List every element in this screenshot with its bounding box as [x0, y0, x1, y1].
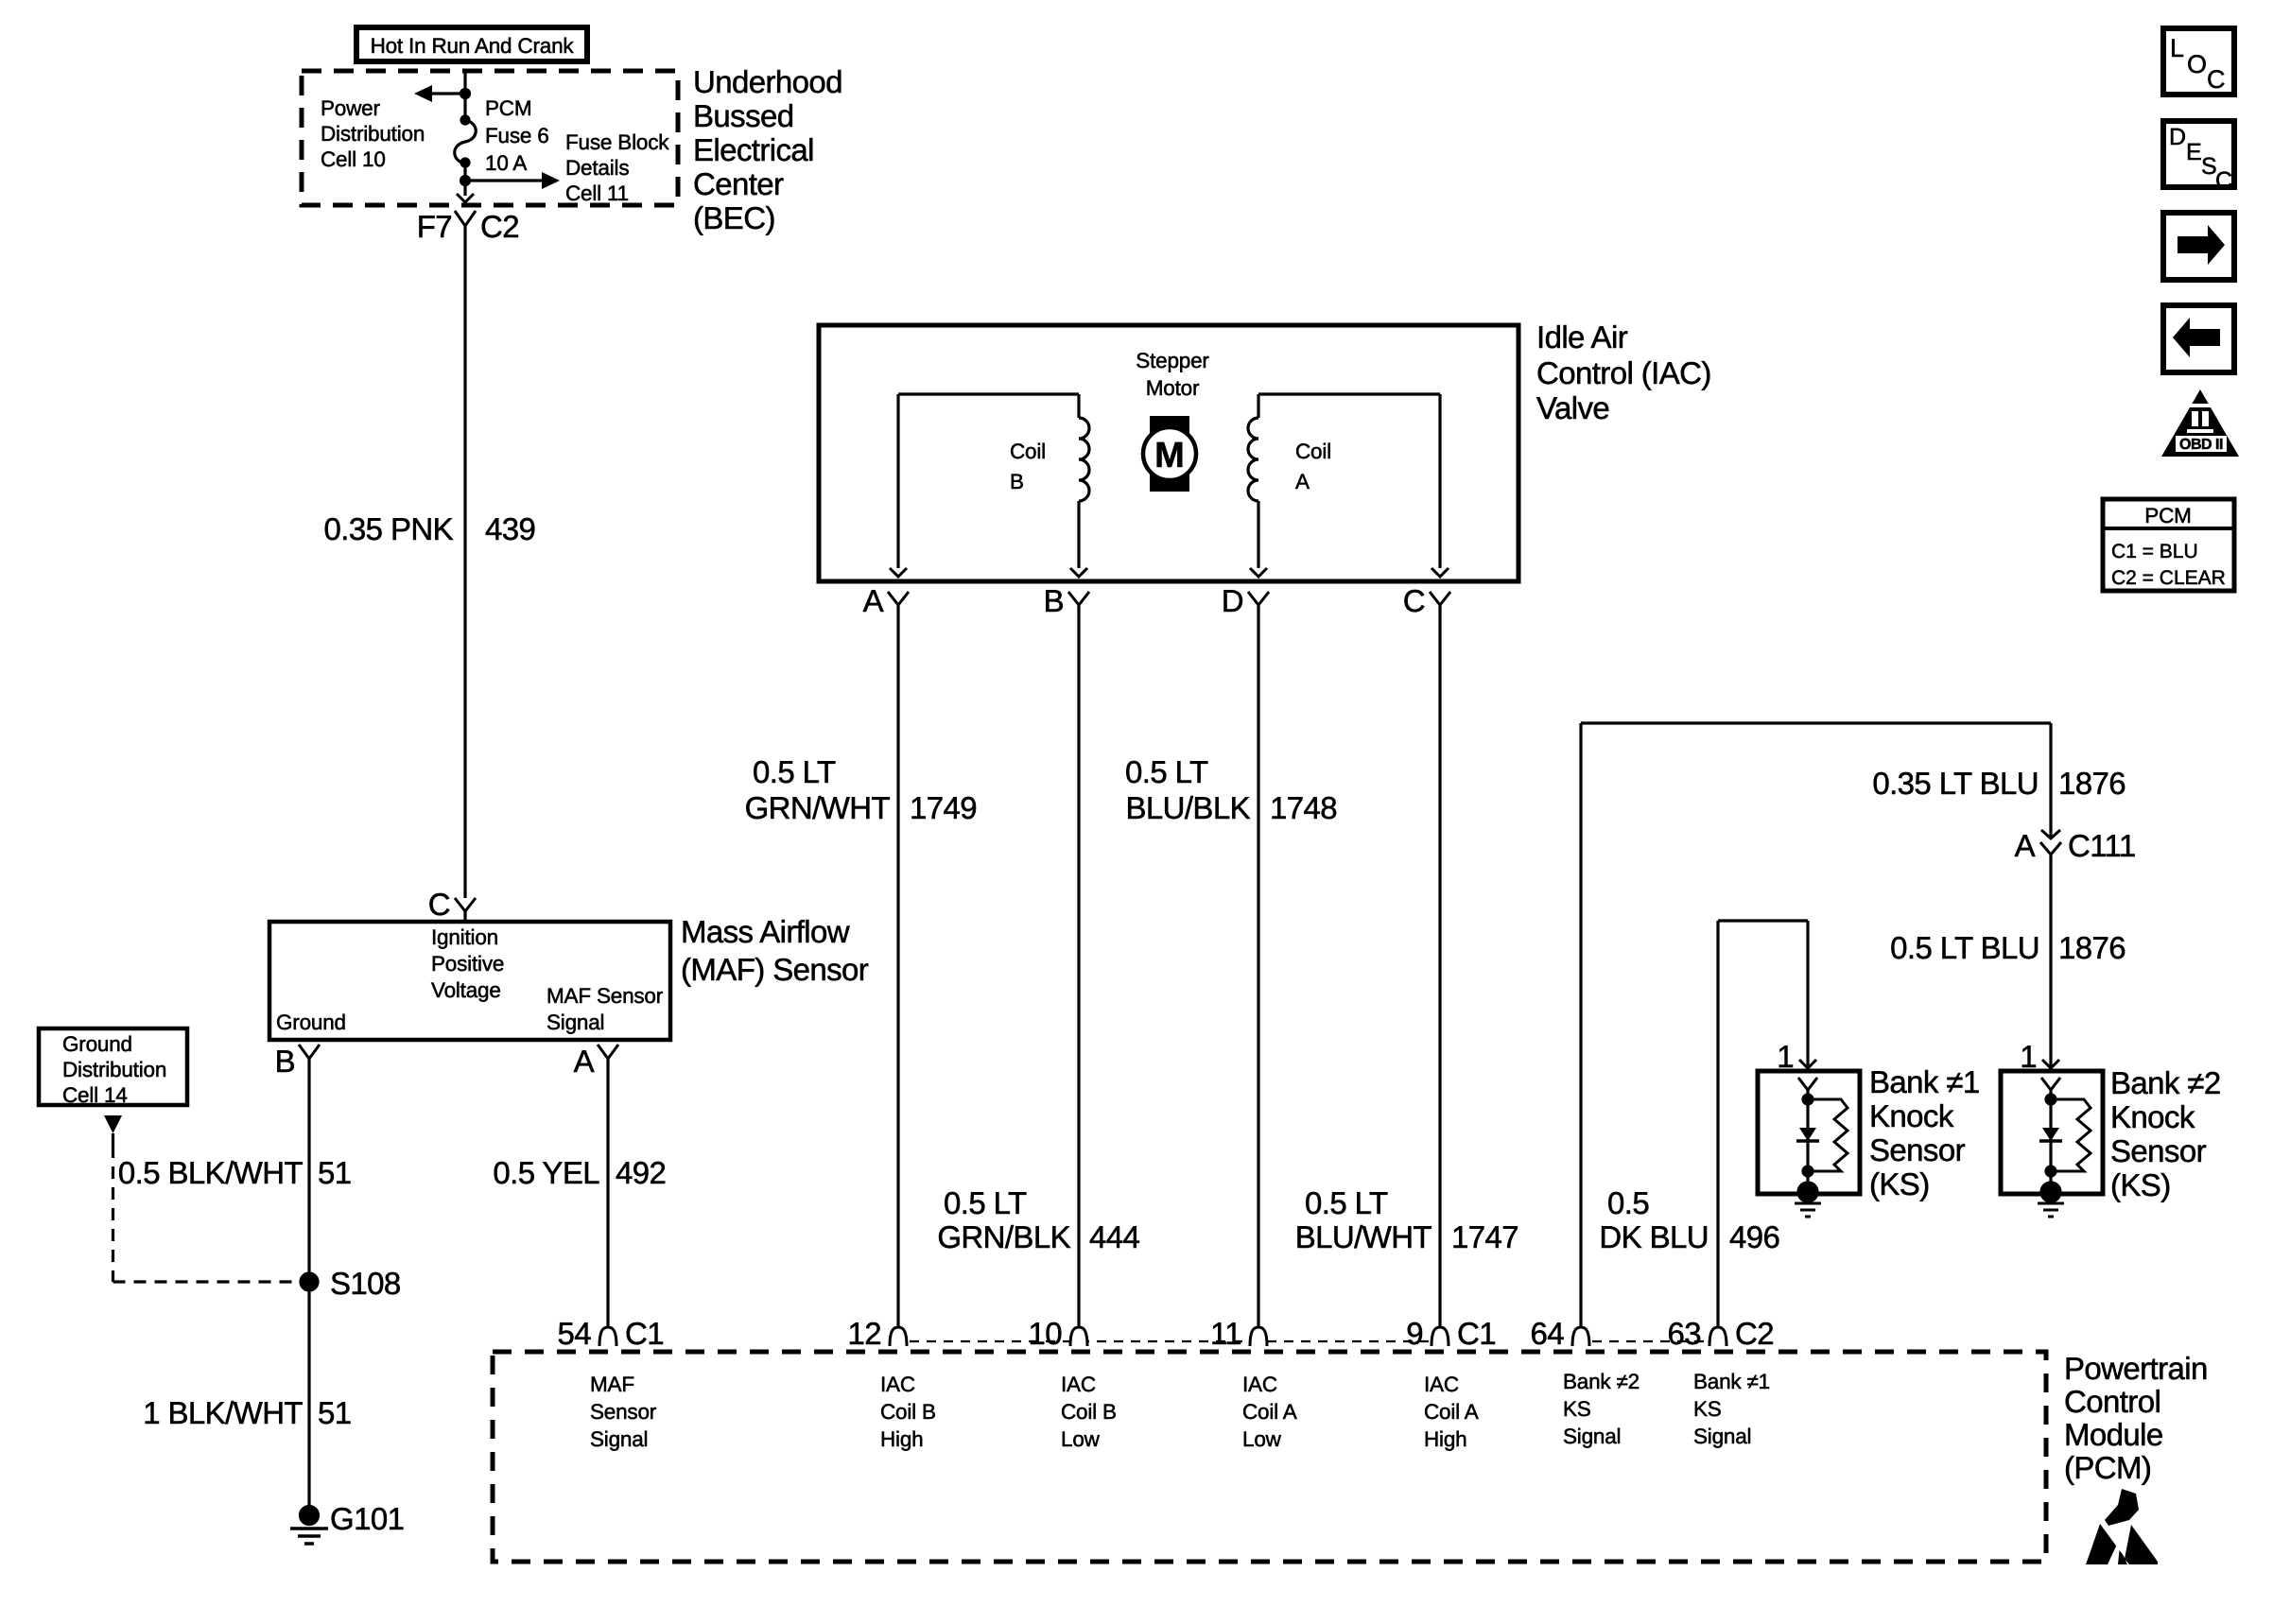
svg-text:51: 51 [318, 1155, 352, 1190]
wire 439 PNK [463, 226, 466, 898]
svg-text:C: C [428, 887, 450, 922]
svg-text:C: C [2215, 167, 2232, 194]
svg-text:Fuse 6: Fuse 6 [485, 124, 549, 147]
stepper motor M symbol [1143, 416, 1196, 492]
svg-text:Signal: Signal [547, 1011, 604, 1034]
svg-text:Details: Details [565, 156, 629, 180]
svg-text:BLU/WHT: BLU/WHT [1295, 1219, 1432, 1254]
label 0.5 LT GRN/BLK 444 [937, 1185, 1139, 1254]
connector C at MAF [455, 898, 476, 922]
ground dot Bank 2 KS [2041, 1183, 2060, 1201]
arrow down to BEC edge [457, 194, 474, 202]
svg-text:Knock: Knock [2110, 1099, 2195, 1134]
svg-text:Control: Control [2064, 1384, 2160, 1419]
resistor Bank 2 KS [2051, 1099, 2091, 1171]
svg-text:492: 492 [616, 1155, 666, 1190]
svg-text:Coil B: Coil B [880, 1400, 936, 1424]
label 0.5 BLK/WHT 51 [118, 1155, 352, 1190]
svg-text:10: 10 [1028, 1316, 1062, 1351]
pin 9 C1 [1406, 1316, 1496, 1351]
svg-text:Coil A: Coil A [1242, 1400, 1297, 1424]
svg-text:GRN/BLK: GRN/BLK [937, 1219, 1070, 1254]
label 0.5 YEL 492 [493, 1155, 666, 1190]
text IAC Coil B High (pin 12) [880, 1373, 936, 1451]
svg-text:IAC: IAC [1061, 1373, 1096, 1396]
connector pin 1 inside Bank 1 KS [1798, 1078, 1817, 1190]
svg-text:Signal: Signal [1693, 1425, 1751, 1448]
knock sensor Bank #1 box [1758, 1071, 1860, 1194]
svg-text:Bussed: Bussed [693, 98, 793, 133]
svg-text:Sensor: Sensor [1869, 1132, 1966, 1167]
svg-text:A: A [863, 583, 884, 618]
svg-text:0.5 LT: 0.5 LT [1125, 754, 1208, 789]
text MAF Sensor Signal (inside box) [547, 984, 664, 1034]
svg-text:GRN/WHT: GRN/WHT [745, 790, 891, 825]
svg-text:Signal: Signal [1563, 1425, 1621, 1448]
text A [574, 1044, 595, 1079]
svg-text:Bank ≠1: Bank ≠1 [1869, 1064, 1980, 1099]
svg-text:Idle Air: Idle Air [1536, 320, 1628, 354]
text pin 1 Bank 1 KS [1777, 1039, 1794, 1074]
label Powertrain Control Module (PCM) [2064, 1351, 2208, 1485]
svg-text:B: B [1044, 583, 1064, 618]
text G101 [330, 1501, 404, 1536]
svg-text:Module: Module [2064, 1417, 2163, 1452]
svg-text:0.5 BLK/WHT: 0.5 BLK/WHT [118, 1155, 304, 1190]
svg-text:Bank ≠1: Bank ≠1 [1693, 1370, 1770, 1393]
svg-text:High: High [1424, 1427, 1466, 1451]
wire PCM 64 to C111 (ckt 1876) [1581, 723, 2051, 1327]
diode Bank 1 KS [1796, 1128, 1819, 1141]
arrow from Ground Distribution box [104, 1115, 122, 1146]
text Ground Distribution Cell 14 [62, 1032, 166, 1107]
text IAC Coil B Low (pin 10) [1061, 1373, 1117, 1451]
svg-text:(MAF) Sensor: (MAF) Sensor [681, 952, 869, 987]
svg-text:444: 444 [1089, 1219, 1140, 1254]
svg-text:496: 496 [1729, 1219, 1779, 1254]
Ground Distribution Cell 14 box [39, 1028, 187, 1105]
svg-text:C1: C1 [1457, 1316, 1496, 1351]
label Mass Airflow (MAF) Sensor [681, 914, 869, 987]
svg-text:Low: Low [1061, 1427, 1101, 1451]
arrow to Power Distribution Cell 10 [414, 85, 465, 102]
svg-text:IAC: IAC [1242, 1373, 1277, 1396]
svg-text:OBD II: OBD II [2179, 437, 2223, 453]
svg-text:Cell 10: Cell 10 [321, 147, 386, 171]
svg-text:Sensor: Sensor [2110, 1133, 2207, 1168]
MAF sensor box [269, 922, 670, 1040]
pin 11 [1210, 1316, 1267, 1351]
connector A at MAF [598, 1045, 618, 1059]
svg-text:M: M [1154, 436, 1185, 475]
svg-text:B: B [275, 1044, 295, 1079]
thin dashed connector line C2 [1592, 1340, 1707, 1342]
svg-text:64: 64 [1530, 1316, 1564, 1351]
wire ground 51 BLK/WHT [307, 1059, 310, 1515]
junction dots Bank 1 KS [1803, 1095, 1813, 1176]
text Ignition Positive Voltage [431, 925, 504, 1002]
svg-text:Bank ≠2: Bank ≠2 [1563, 1370, 1640, 1393]
svg-text:Distribution: Distribution [321, 122, 425, 146]
text B [275, 1044, 295, 1079]
icon LOC box [2163, 28, 2234, 95]
svg-text:IAC: IAC [1424, 1373, 1459, 1396]
junction dots Bank 2 KS [2046, 1095, 2056, 1176]
svg-text:C: C [2207, 65, 2226, 94]
svg-text:12: 12 [847, 1316, 881, 1351]
text C111 [2068, 828, 2136, 863]
svg-text:1747: 1747 [1451, 1219, 1518, 1254]
svg-text:BLU/BLK: BLU/BLK [1125, 790, 1250, 825]
arrow to Fuse Block Details Cell 11 [465, 172, 560, 189]
svg-text:KS: KS [1563, 1397, 1591, 1421]
svg-text:1: 1 [2020, 1039, 2037, 1074]
connector A at IAC [888, 592, 909, 605]
label 0.35 PNK 439 [324, 511, 536, 546]
svg-text:C111: C111 [2068, 828, 2136, 863]
svg-text:Control (IAC): Control (IAC) [1536, 355, 1711, 390]
wire IAC B to PCM 10 (ckt 444) [1077, 605, 1080, 1327]
connector D at IAC [1248, 592, 1269, 605]
text D [1222, 583, 1243, 618]
svg-text:DK BLU: DK BLU [1599, 1219, 1709, 1254]
svg-text:0.5 LT: 0.5 LT [1305, 1185, 1388, 1220]
svg-text:C1 = BLU: C1 = BLU [2111, 541, 2198, 562]
svg-text:L: L [2170, 34, 2184, 62]
text F7 [417, 209, 452, 244]
text Stepper Motor [1136, 349, 1209, 400]
diode Bank 2 KS [2039, 1128, 2062, 1141]
icon right arrow box [2163, 213, 2234, 280]
icon DESC box [2163, 121, 2234, 194]
connector A C111 [2040, 830, 2061, 855]
label 0.5 LT BLU/WHT 1747 [1295, 1185, 1518, 1254]
junction dot power bus [461, 90, 470, 98]
svg-text:Mass Airflow: Mass Airflow [681, 914, 850, 949]
svg-text:1 BLK/WHT: 1 BLK/WHT [143, 1395, 303, 1430]
fuse PCM Fuse 6 10 A [455, 116, 477, 166]
icon left arrow box [2163, 305, 2234, 372]
svg-text:Power: Power [321, 96, 380, 120]
wire C111 to Bank 2 KS (ckt 1876) [2042, 855, 2059, 1068]
pin 10 [1028, 1316, 1087, 1351]
svg-text:G101: G101 [330, 1501, 404, 1536]
pin 12 [847, 1316, 907, 1351]
connector B at IAC [1068, 592, 1089, 605]
svg-text:54: 54 [557, 1316, 591, 1351]
svg-text:Valve: Valve [1536, 390, 1609, 425]
text S108 [330, 1266, 401, 1301]
ground dot Bank 1 KS [1798, 1183, 1817, 1201]
label Hot In Run And Crank [356, 27, 587, 61]
svg-text:Sensor: Sensor [590, 1400, 657, 1424]
label 1 BLK/WHT 51 [143, 1395, 351, 1430]
svg-text:0.5 LT: 0.5 LT [753, 754, 836, 789]
pin 64 [1530, 1316, 1589, 1351]
svg-text:MAF: MAF [590, 1373, 634, 1396]
text C2 [480, 209, 519, 244]
thin dashed connector line C1 [910, 1340, 1429, 1342]
svg-text:51: 51 [318, 1395, 352, 1430]
text C [428, 887, 450, 922]
svg-text:O: O [2187, 50, 2207, 78]
text pin 1 Bank 2 KS [2020, 1039, 2037, 1074]
svg-text:Coil: Coil [1295, 440, 1331, 463]
svg-text:D: D [2169, 124, 2186, 150]
svg-text:Ignition: Ignition [431, 925, 498, 949]
text Coil B [1010, 440, 1046, 493]
svg-text:C2: C2 [1735, 1316, 1774, 1351]
svg-text:Distribution: Distribution [62, 1058, 166, 1081]
svg-text:9: 9 [1406, 1316, 1423, 1351]
text IAC Coil A Low (pin 11) [1242, 1373, 1297, 1451]
label 0.5 LT BLU/BLK 1748 [1125, 754, 1337, 825]
text C [1403, 583, 1425, 618]
text A [2015, 828, 2036, 863]
svg-text:0.5 LT BLU: 0.5 LT BLU [1890, 930, 2039, 965]
svg-text:0.5 LT: 0.5 LT [944, 1185, 1027, 1220]
ground G101 [290, 1507, 328, 1545]
connector C at IAC [1430, 592, 1450, 605]
text Ground (inside box) [276, 1011, 346, 1034]
svg-text:63: 63 [1667, 1316, 1701, 1351]
svg-text:Underhood: Underhood [693, 64, 842, 99]
svg-text:Knock: Knock [1869, 1098, 1954, 1133]
svg-text:Signal: Signal [590, 1427, 648, 1451]
svg-text:Powertrain: Powertrain [2064, 1351, 2208, 1386]
svg-text:Bank ≠2: Bank ≠2 [2110, 1065, 2221, 1100]
label 0.5 DK BLU 496 [1599, 1185, 1779, 1254]
svg-text:Ground: Ground [62, 1032, 132, 1056]
svg-text:A: A [1295, 470, 1310, 493]
text IAC Coil A High (pin 9) [1424, 1373, 1479, 1451]
label Underhood Bussed Electrical Center (BEC) [693, 64, 842, 235]
svg-text:0.5: 0.5 [1607, 1185, 1649, 1220]
svg-text:E: E [2186, 139, 2202, 165]
ESD symbol [2086, 1489, 2158, 1564]
svg-text:C2 = CLEAR: C2 = CLEAR [2111, 567, 2226, 589]
label Idle Air Control (IAC) Valve [1536, 320, 1711, 425]
junction dot to fuse block [461, 177, 470, 185]
pin 63 C2 [1667, 1316, 1774, 1351]
label Bank #1 Knock Sensor (KS) [1869, 1064, 1980, 1201]
svg-text:PCM: PCM [2144, 504, 2191, 527]
svg-text:Fuse Block: Fuse Block [565, 130, 669, 154]
svg-text:High: High [880, 1427, 923, 1451]
label 0.35 LT BLU 1876 [1872, 766, 2126, 801]
svg-text:1876: 1876 [2058, 930, 2126, 965]
wire 492 YEL [606, 1059, 609, 1327]
svg-text:C2: C2 [480, 209, 519, 244]
svg-text:11: 11 [1210, 1316, 1241, 1351]
PCM connector legend box [2103, 499, 2234, 591]
svg-text:Voltage: Voltage [431, 978, 501, 1002]
connector pin 1 inside Bank 2 KS [2041, 1078, 2060, 1190]
svg-text:MAF Sensor: MAF Sensor [547, 984, 664, 1008]
coil A [1248, 394, 1449, 577]
wire IAC A to PCM 12 (ckt 1749) [896, 605, 899, 1327]
svg-text:B: B [1010, 470, 1024, 493]
svg-text:(KS): (KS) [2110, 1167, 2171, 1202]
wire PCM 63 to Bank 1 KS (ckt 496) [1718, 921, 1816, 1327]
svg-text:Electrical: Electrical [693, 132, 814, 167]
svg-text:1876: 1876 [2058, 766, 2126, 801]
text A [863, 583, 884, 618]
svg-text:S108: S108 [330, 1266, 401, 1301]
svg-text:F7: F7 [417, 209, 452, 244]
text Fuse Block Details Cell 11 [565, 130, 669, 205]
svg-text:Ground: Ground [276, 1011, 346, 1034]
ground symbol Bank 2 KS [2038, 1203, 2064, 1217]
svg-text:1: 1 [1777, 1039, 1794, 1074]
svg-text:1748: 1748 [1270, 790, 1337, 825]
svg-text:(PCM): (PCM) [2064, 1450, 2151, 1485]
IAC valve box [819, 325, 1518, 581]
svg-text:1749: 1749 [910, 790, 977, 825]
svg-text:PCM: PCM [485, 96, 531, 120]
svg-text:D: D [1222, 583, 1243, 618]
wire IAC D to PCM 11 (ckt 1748) [1257, 605, 1259, 1327]
svg-text:KS: KS [1693, 1397, 1722, 1421]
svg-text:10 A: 10 A [485, 151, 527, 175]
text Coil A [1295, 440, 1331, 493]
label 0.5 LT GRN/WHT 1749 [745, 754, 977, 825]
svg-text:0.35 LT BLU: 0.35 LT BLU [1872, 766, 2039, 801]
svg-text:C1: C1 [625, 1316, 664, 1351]
connector F7 C2 [455, 211, 476, 226]
svg-text:C: C [1403, 583, 1425, 618]
svg-text:Cell 14: Cell 14 [62, 1083, 128, 1107]
resistor Bank 1 KS [1808, 1099, 1848, 1171]
svg-text:IAC: IAC [880, 1373, 915, 1396]
label Bank #2 Knock Sensor (KS) [2110, 1065, 2221, 1202]
wire IAC C to PCM 9 (ckt 1747) [1438, 605, 1441, 1327]
svg-text:A: A [574, 1044, 595, 1079]
text Bank #1 KS Signal (pin 63) [1693, 1370, 1770, 1448]
svg-text:A: A [2015, 828, 2036, 863]
dashed wire to S108 [113, 1146, 301, 1282]
svg-text:(BEC): (BEC) [693, 200, 775, 235]
wire fuse to lower junction [463, 163, 466, 196]
text PCM Fuse 6 10 A [485, 96, 549, 175]
text Power Distribution Cell 10 [321, 96, 425, 171]
svg-text:(KS): (KS) [1869, 1166, 1930, 1201]
svg-text:Hot In Run And Crank: Hot In Run And Crank [371, 34, 575, 58]
coil B [890, 394, 1089, 577]
splice S108 [301, 1273, 318, 1290]
text Bank #2 KS Signal (pin 64) [1563, 1370, 1640, 1448]
svg-text:Low: Low [1242, 1427, 1282, 1451]
svg-text:Center: Center [693, 166, 784, 201]
wire hot feed vertical [463, 73, 466, 121]
svg-text:Coil: Coil [1010, 440, 1046, 463]
svg-text:Stepper: Stepper [1136, 349, 1209, 372]
label 0.5 LT BLU 1876 [1890, 930, 2126, 965]
Underhood Bussed Electrical Center (BEC) dashed box [302, 71, 678, 205]
icon OBD II triangle [2161, 389, 2239, 457]
svg-text:Coil B: Coil B [1061, 1400, 1117, 1424]
svg-text:0.35 PNK: 0.35 PNK [324, 511, 454, 546]
svg-text:Positive: Positive [431, 952, 504, 976]
svg-text:0.5 YEL: 0.5 YEL [493, 1155, 599, 1190]
knock sensor Bank #2 box [2001, 1071, 2103, 1194]
svg-text:Cell 11: Cell 11 [565, 181, 629, 205]
svg-text:Motor: Motor [1146, 376, 1200, 400]
text B [1044, 583, 1064, 618]
svg-text:439: 439 [485, 511, 535, 546]
ground symbol Bank 1 KS [1795, 1203, 1821, 1217]
svg-text:Coil A: Coil A [1424, 1400, 1479, 1424]
text MAF Sensor Signal (pin 54) [590, 1373, 657, 1451]
pin 54 C1 [557, 1316, 664, 1351]
connector B at MAF [299, 1045, 320, 1059]
Powertrain Control Module (PCM) dashed box [493, 1352, 2046, 1562]
